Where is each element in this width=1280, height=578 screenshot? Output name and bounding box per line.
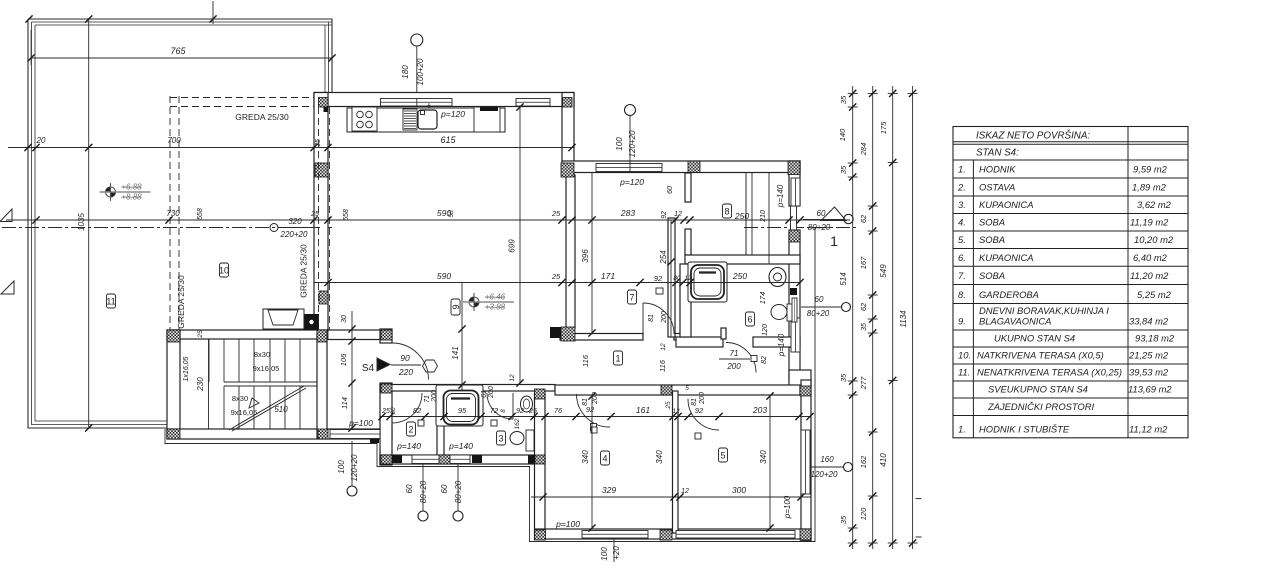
svg-text:9x16,05: 9x16,05 — [231, 408, 258, 417]
svg-text:7: 7 — [629, 293, 634, 303]
svg-text:700: 700 — [167, 136, 181, 145]
room label 8 — [723, 204, 732, 218]
wall: kitchen block right wall — [562, 93, 574, 174]
pier stairwell NW — [167, 330, 180, 342]
window bath6 east p=140 — [791, 318, 800, 352]
svg-text:60: 60 — [815, 295, 824, 304]
wall: room4/5 bottom exterior wall — [535, 529, 811, 539]
door room2 — [391, 393, 393, 424]
window kitchen north p=120 — [381, 99, 453, 107]
svg-text:12: 12 — [684, 275, 692, 282]
wall: strip bottom wall — [380, 455, 545, 464]
pier stairwell SE — [318, 429, 328, 439]
wall: right wing top wall — [562, 161, 800, 173]
svg-text:60: 60 — [405, 484, 414, 493]
svg-text:174: 174 — [758, 292, 767, 305]
svg-text:71: 71 — [730, 349, 739, 358]
svg-text:p=140: p=140 — [776, 184, 785, 208]
svg-text:92: 92 — [516, 408, 524, 415]
svg-text:8x30: 8x30 — [254, 350, 270, 359]
beam GREDA 25/30 dashed rectangle — [169, 96, 171, 330]
wall node below pier — [324, 107, 328, 112]
svg-text:81: 81 — [582, 398, 589, 406]
svg-text:80+20: 80+20 — [454, 480, 463, 503]
wall: hall south wall / rooms strip top — [380, 385, 555, 392]
window bath3 south p=140 — [450, 455, 470, 464]
svg-text:200: 200 — [592, 392, 599, 405]
svg-text:230: 230 — [196, 377, 205, 392]
pier strip SE — [535, 455, 545, 464]
svg-text:76: 76 — [554, 406, 563, 415]
window room5 south — [676, 531, 795, 539]
svg-text:SVEUKUPNO STAN S4: SVEUKUPNO STAN S4 — [988, 384, 1088, 395]
svg-text:250: 250 — [734, 211, 749, 221]
svg-text:1.: 1. — [958, 164, 966, 175]
room label 11 — [107, 294, 116, 308]
svg-text:12: 12 — [674, 211, 682, 218]
wall node bath6 east — [790, 288, 797, 295]
svg-text:12: 12 — [681, 488, 689, 495]
wall: strip divider bath3/room4 — [535, 393, 546, 539]
pier top-left corner — [319, 98, 329, 108]
room label 4 — [601, 451, 610, 465]
leader 320/220+20 on axis — [270, 224, 278, 232]
svg-text:DNEVNI BORAVAK,KUHINJA I: DNEVNI BORAVAK,KUHINJA I — [979, 305, 1109, 316]
svg-text:171: 171 — [601, 271, 615, 281]
svg-text:329: 329 — [602, 485, 616, 495]
svg-text:175: 175 — [879, 121, 888, 134]
dimension chains right side — [852, 86, 854, 549]
svg-text:5: 5 — [720, 451, 725, 461]
window kitchen north small — [516, 99, 550, 107]
svg-text:4.: 4. — [958, 217, 966, 228]
svg-text:92: 92 — [661, 211, 668, 219]
dim 340 rooms 4/5 — [591, 396, 593, 528]
svg-text:11.: 11. — [958, 367, 970, 378]
svg-text:120: 120 — [859, 507, 868, 520]
svg-text:20: 20 — [36, 136, 46, 145]
dimension line y=416.5 strip — [380, 416, 811, 418]
toilet bath3 — [510, 432, 524, 445]
svg-text:1x16,05: 1x16,05 — [183, 356, 190, 381]
svg-text:283: 283 — [620, 208, 635, 218]
svg-text:114: 114 — [340, 397, 349, 409]
svg-text:80+20: 80+20 — [807, 309, 830, 318]
svg-text:113,69 m2: 113,69 m2 — [1128, 384, 1172, 395]
svg-text:11,20 m2: 11,20 m2 — [1130, 270, 1169, 281]
svg-text:p=140: p=140 — [777, 333, 786, 357]
svg-text:1035: 1035 — [77, 213, 86, 231]
svg-text:180: 180 — [401, 65, 410, 79]
svg-text:161: 161 — [636, 405, 650, 415]
dim 1035 terrace — [88, 19, 90, 428]
svg-text:250: 250 — [732, 271, 747, 281]
toilet bath6 — [771, 305, 787, 320]
stair up-line diagonal — [229, 386, 304, 430]
svg-text:82: 82 — [413, 406, 422, 415]
svg-text:11: 11 — [106, 297, 115, 307]
wall: garderoba south wall — [685, 255, 800, 264]
svg-text:HODNIK I STUBIŠTE: HODNIK I STUBIŠTE — [979, 423, 1070, 434]
svg-text:S4: S4 — [362, 363, 375, 374]
svg-text:120+20: 120+20 — [811, 470, 838, 479]
second triangle marker left edge — [1, 281, 14, 294]
solid wall pier living SE — [550, 327, 561, 338]
entrance door leaf — [791, 206, 797, 230]
solid wall node strip bottom — [392, 455, 402, 463]
wall: bath6 west wall — [680, 264, 691, 337]
door bath3 — [512, 393, 514, 419]
leader room4 window +20 — [613, 538, 615, 562]
dim chain x=352 (30,106,114) — [351, 311, 353, 430]
svg-text:GARDEROBA: GARDEROBA — [979, 289, 1039, 300]
svg-text:254: 254 — [659, 250, 668, 265]
pier strip bottom mid — [437, 455, 450, 464]
door room5 — [688, 399, 719, 430]
svg-text:120: 120 — [762, 324, 769, 336]
room label 1 hall — [614, 351, 623, 365]
solid wall node bath3 SE — [528, 456, 536, 464]
svg-text:p=140: p=140 — [448, 441, 473, 451]
svg-text:OSTAVA: OSTAVA — [979, 182, 1015, 193]
wall: stairwell bottom — [167, 429, 392, 439]
svg-text:SOBA: SOBA — [979, 270, 1005, 281]
svg-text:p=100: p=100 — [348, 418, 373, 428]
svg-text:160: 160 — [820, 455, 834, 464]
pier room4 NW — [535, 389, 546, 399]
svg-text:5.: 5. — [958, 234, 966, 245]
svg-text:410: 410 — [879, 453, 888, 467]
terrace/plot boundary lower right — [165, 227, 815, 542]
pier stairwell SW — [167, 429, 180, 439]
leader bath3 window 60/80+20 — [453, 511, 463, 521]
svg-text:35: 35 — [839, 373, 848, 382]
svg-text:699: 699 — [508, 239, 517, 253]
pier hall south — [661, 385, 672, 395]
svg-text:25: 25 — [665, 401, 672, 410]
room label 5 — [719, 448, 728, 462]
svg-text:39,53 m2: 39,53 m2 — [1129, 367, 1169, 378]
svg-text:1134: 1134 — [899, 310, 908, 328]
door S4 entry 90/220 — [392, 343, 429, 380]
svg-text:80: 80 — [673, 275, 681, 282]
svg-text:9.: 9. — [958, 316, 966, 327]
svg-text:35: 35 — [315, 139, 322, 147]
svg-text:5,25 m2: 5,25 m2 — [1137, 289, 1172, 300]
shower tray bath3 (95x95) — [436, 385, 483, 426]
svg-text:116: 116 — [581, 354, 590, 367]
svg-text:ISKAZ NETO POVRŠINA:: ISKAZ NETO POVRŠINA: — [976, 131, 1090, 142]
washbasin bath6 — [769, 268, 786, 287]
svg-text:396: 396 — [581, 249, 590, 263]
dim 254 — [670, 220, 672, 337]
svg-text:p=100: p=100 — [783, 495, 792, 519]
svg-text:340: 340 — [759, 450, 768, 464]
svg-text:81: 81 — [648, 314, 655, 322]
wall: strip divider room2/shower — [437, 390, 444, 455]
svg-text:10: 10 — [219, 266, 229, 276]
terrace outline (top-left, triple line) — [28, 19, 332, 428]
svg-text:10,20 m2: 10,20 m2 — [1134, 234, 1174, 245]
leader wing window 100/120+20 — [625, 105, 636, 116]
pier strip NW — [381, 384, 392, 393]
svg-text:+6.46: +6.46 — [485, 293, 506, 302]
shower bath6 — [688, 262, 727, 302]
svg-text:SOBA: SOBA — [979, 217, 1005, 228]
svg-text:GREDA 25/30: GREDA 25/30 — [299, 244, 309, 298]
room label 9 (rotated) — [451, 299, 460, 315]
svg-text:6.: 6. — [958, 252, 966, 263]
svg-text:HODNIK: HODNIK — [979, 164, 1016, 175]
svg-text:5: 5 — [685, 385, 689, 392]
svg-text:8: 8 — [724, 207, 729, 217]
pier kitchen SE — [561, 163, 574, 177]
svg-text:93,18 m2: 93,18 m2 — [1135, 333, 1175, 344]
svg-text:9: 9 — [451, 304, 461, 309]
pier living SE hatch — [561, 327, 575, 341]
svg-text:615: 615 — [440, 135, 456, 145]
svg-text:11,12 m2: 11,12 m2 — [1129, 423, 1168, 434]
svg-text:284: 284 — [859, 143, 868, 157]
svg-text:25: 25 — [551, 209, 561, 218]
leader kitchen window 180/100+20 — [411, 34, 423, 46]
solid wall node stair SE — [370, 431, 379, 443]
svg-text:120+20: 120+20 — [350, 454, 359, 481]
stair treads lower flight 8x30 — [224, 386, 300, 429]
wall: garderoba west wall — [685, 173, 691, 202]
svg-text:72: 72 — [490, 406, 499, 415]
svg-text:92: 92 — [695, 406, 704, 415]
svg-text:558: 558 — [343, 209, 350, 221]
node: terrace top-left tick — [25, 15, 32, 22]
pier room4 SE — [660, 530, 672, 540]
wall: exterior right wall upper — [789, 161, 800, 206]
svg-text:92: 92 — [654, 274, 663, 283]
dim 396 room7 — [591, 173, 593, 333]
beam support block on left wall — [304, 314, 319, 330]
entrance 2 leader 60/80+20 — [842, 303, 851, 312]
svg-text:10.: 10. — [958, 350, 971, 361]
svg-text:30: 30 — [390, 407, 397, 415]
svg-text:25: 25 — [551, 272, 561, 281]
door bath6 — [726, 343, 756, 373]
svg-text:UKUPNO STAN S4: UKUPNO STAN S4 — [994, 333, 1075, 344]
svg-text:277: 277 — [859, 376, 868, 390]
kitchen sink bowl — [418, 110, 437, 129]
svg-text:GREDA 25/30: GREDA 25/30 — [235, 112, 289, 122]
svg-text:4: 4 — [602, 454, 607, 464]
dim 141 hall — [461, 283, 463, 390]
room label 3 — [497, 431, 506, 445]
room label 7 — [628, 290, 637, 304]
leader stair window 100/120+20 — [347, 486, 357, 496]
svg-text:25: 25 — [528, 408, 537, 415]
svg-text:81: 81 — [691, 398, 698, 406]
pier room5 SE — [800, 529, 811, 540]
svg-text:7.: 7. — [958, 270, 966, 281]
svg-text:3,62 m2: 3,62 m2 — [1137, 199, 1172, 210]
svg-text:12: 12 — [660, 343, 667, 351]
svg-text:STAN S4:: STAN S4: — [976, 148, 1019, 159]
wall: divider room4/room5 — [673, 391, 679, 533]
svg-text:200: 200 — [726, 362, 741, 371]
svg-text:340: 340 — [655, 450, 664, 464]
pier S4 wall top — [381, 330, 392, 340]
svg-text:510: 510 — [274, 405, 288, 414]
svg-text:11,19 m2: 11,19 m2 — [1130, 217, 1169, 228]
svg-text:35: 35 — [839, 515, 848, 524]
svg-text:25: 25 — [381, 408, 390, 415]
svg-text:NENATKRIVENA TERASA (X0,25): NENATKRIVENA TERASA (X0,25) — [977, 367, 1122, 378]
svg-text:p=100: p=100 — [555, 519, 580, 529]
svg-text:210: 210 — [760, 210, 767, 223]
wall: corridor north wall stair-to-S4 — [326, 330, 382, 340]
svg-text:203: 203 — [752, 405, 767, 415]
svg-text:62: 62 — [859, 302, 868, 311]
svg-text:200: 200 — [699, 392, 706, 405]
svg-text:9,59 m2: 9,59 m2 — [1133, 164, 1168, 175]
wall: bath6 south wall west part — [676, 337, 723, 347]
wall: right wall step — [789, 370, 811, 386]
svg-text:116: 116 — [658, 359, 667, 372]
window room7 north p=120 — [596, 164, 662, 172]
washbasin bath3 — [521, 396, 533, 412]
dark strip on appliance — [480, 107, 498, 111]
svg-text:3: 3 — [498, 434, 503, 444]
svg-text:9x16,05: 9x16,05 — [253, 364, 280, 373]
stair landing lines — [224, 381, 317, 383]
wall: building left wall — [314, 93, 328, 333]
pier NE corner — [788, 161, 800, 175]
leader room2 window 60/80+20 — [418, 511, 428, 521]
wall: living/room7 divider — [566, 175, 575, 328]
svg-text:SOBA: SOBA — [979, 234, 1005, 245]
kitchen counter — [347, 108, 505, 132]
stove with 4 burners — [352, 107, 377, 131]
pier below entrance — [789, 230, 800, 242]
svg-text:162: 162 — [859, 455, 868, 468]
svg-text:167: 167 — [859, 256, 868, 269]
room label 6 — [746, 312, 755, 326]
svg-text:+20: +20 — [612, 546, 621, 560]
radiator bath6 — [792, 298, 797, 322]
svg-text:765: 765 — [170, 46, 186, 56]
door room7 — [642, 303, 644, 334]
switch boxes — [418, 420, 424, 426]
svg-text:1,89 m2: 1,89 m2 — [1132, 182, 1167, 193]
wall: hall north wall (room7 south) — [560, 334, 643, 341]
wall: exterior right wall lower (room 5) — [801, 380, 811, 541]
elevation marker living — [469, 297, 479, 307]
svg-text:300: 300 — [732, 485, 746, 495]
wall: building top wall — [314, 93, 574, 107]
wall: stairwell top — [167, 330, 327, 339]
pier left wall — [315, 163, 328, 177]
pier left wall at beam — [319, 291, 328, 304]
stair treads upper flight 8x30 — [209, 339, 300, 382]
dimension line y=220 (730,558,25,558,590,58,25,283,92,12,250,210) — [6, 219, 850, 221]
svg-text:1: 1 — [615, 354, 620, 364]
svg-text:141: 141 — [451, 346, 460, 359]
svg-text:62: 62 — [859, 214, 868, 223]
wall: stairwell left — [167, 330, 180, 438]
room label 2 — [407, 422, 416, 436]
beam dashed lines along left wall — [318, 107, 320, 330]
svg-text:ZAJEDNIČKI PROSTORI: ZAJEDNIČKI PROSTORI — [987, 401, 1094, 412]
wire: short axis stub above terrace — [212, 1, 214, 24]
svg-text:BLAGAVAONICA: BLAGAVAONICA — [979, 316, 1051, 327]
area table ISKAZ NETO POVRSINA — [953, 127, 1188, 438]
svg-text:6,40 m2: 6,40 m2 — [1133, 252, 1168, 263]
svg-text:21,25 m2: 21,25 m2 — [1128, 350, 1169, 361]
entrance 1: triangle + 60/80+20 — [821, 207, 846, 221]
dimension line y=282.5 (590,25,171,92,80,12,250) — [314, 282, 800, 284]
dim 699 living — [519, 107, 521, 383]
wall: bath6 south wall east part — [753, 337, 800, 347]
svg-text:549: 549 — [879, 264, 888, 278]
window room5 east — [801, 430, 810, 494]
svg-text:60: 60 — [817, 209, 826, 218]
kitchen appliance — [474, 107, 500, 132]
pier strip SW — [381, 455, 392, 464]
svg-text:590: 590 — [437, 271, 451, 281]
svg-text:220: 220 — [398, 367, 413, 377]
svg-text:12: 12 — [509, 374, 516, 382]
svg-text:p=120: p=120 — [440, 109, 465, 119]
svg-text:730: 730 — [166, 209, 180, 218]
svg-text:p=140: p=140 — [396, 441, 421, 451]
wall: room7 east wall — [668, 218, 675, 337]
pier kitchen NE corner — [563, 98, 573, 108]
axis line (dash-dot) y=227.5 — [2, 227, 332, 229]
svg-text:8.: 8. — [958, 289, 966, 300]
svg-text:100+20: 100+20 — [416, 58, 425, 85]
dim 210 garderoba — [768, 173, 770, 264]
window room4 south p=100 — [582, 531, 648, 539]
leader room5 window 160/120+20 — [844, 463, 853, 472]
svg-text:30: 30 — [341, 315, 348, 323]
svg-text:100: 100 — [337, 460, 346, 474]
svg-text:60: 60 — [440, 484, 449, 493]
pier stairwell NE — [317, 330, 327, 342]
svg-text:25: 25 — [310, 211, 319, 218]
svg-text:558: 558 — [197, 208, 204, 220]
pier wing top wall — [688, 161, 700, 173]
svg-text:120+20: 120+20 — [628, 130, 637, 157]
svg-text:+8.88: +8.88 — [121, 193, 142, 202]
svg-text:+6.88: +6.88 — [121, 183, 142, 192]
svg-text:320: 320 — [288, 217, 302, 226]
svg-text:80+20: 80+20 — [808, 223, 831, 232]
svg-text:80+20: 80+20 — [419, 480, 428, 503]
wall: entry vestibule wall (S4 door wall) — [380, 329, 392, 343]
dimension line y=147 (20,700,35,615) — [8, 147, 574, 149]
svg-text:200: 200 — [488, 386, 495, 399]
svg-text:1: 1 — [830, 233, 838, 249]
svg-text:25: 25 — [197, 330, 204, 339]
svg-text:35: 35 — [839, 165, 848, 174]
svg-text:100: 100 — [600, 547, 609, 561]
svg-text:162: 162 — [514, 418, 521, 429]
solid wall segment strip bottom — [472, 455, 482, 463]
svg-text:61: 61 — [481, 390, 488, 398]
room label 10 — [220, 263, 229, 277]
pier right wall at step — [800, 386, 811, 396]
dimension line y=497 (329,12,300) — [531, 496, 811, 498]
svg-text:KUPAONICA: KUPAONICA — [979, 199, 1034, 210]
svg-text:71: 71 — [424, 395, 431, 403]
svg-text:6: 6 — [747, 315, 752, 325]
